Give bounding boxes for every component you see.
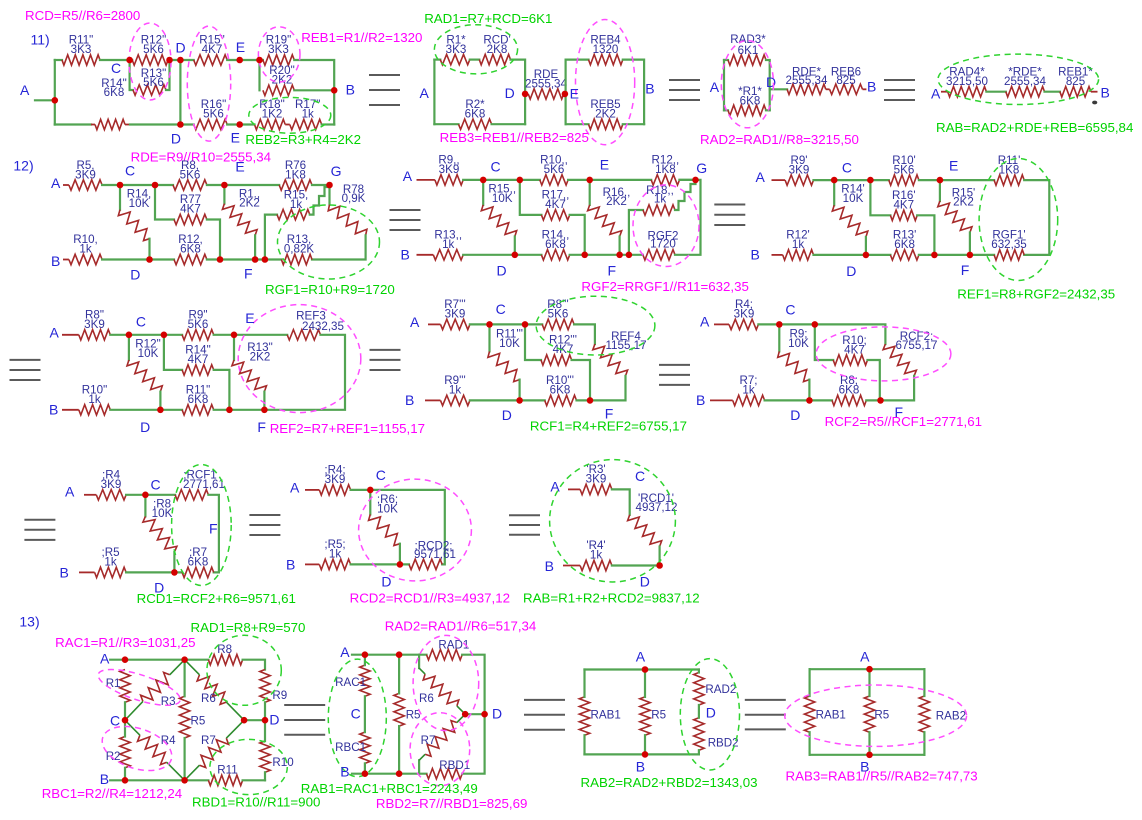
wire B rail to R12 [102, 258, 174, 260]
wire bottom rail 12.3b [919, 254, 994, 256]
wire A lead 4.1 [84, 494, 96, 496]
wire R12 to R13 [207, 258, 282, 260]
wire R15 to E [227, 59, 263, 61]
node C 4.2 [367, 487, 374, 494]
wire B lead 12.6 [710, 399, 733, 401]
node D 12.5 [516, 397, 523, 404]
wire R10; down [868, 360, 880, 400]
svg-text:4937,12: 4937,12 [636, 501, 678, 514]
wire E down 12.2 [589, 180, 591, 205]
svg-text:10K: 10K [138, 347, 159, 360]
svg-text:2K2: 2K2 [953, 196, 974, 209]
resistor R8, 5K6 [173, 180, 207, 190]
svg-text:1k: 1k [79, 243, 91, 256]
svg-text:2555,34: 2555,34 [525, 78, 567, 91]
node D 13.1 [262, 717, 269, 724]
wire REB6 to B [863, 88, 867, 90]
wire bottom rail left [55, 123, 91, 125]
svg-text:E: E [949, 158, 958, 174]
resistor 'RCD1' 4937,12 slanted [628, 515, 662, 547]
svg-text:3K9: 3K9 [84, 318, 105, 331]
node E 12.1 [221, 182, 228, 189]
wire R76 to G [312, 184, 330, 186]
svg-text:2432,35: 2432,35 [302, 320, 344, 333]
node A 13.1 [122, 656, 129, 663]
resistor RGF2 1720 [643, 250, 675, 260]
wire R17 to bottom-right corner [322, 123, 335, 125]
svg-text:B: B [860, 758, 869, 774]
wire top rail 12.6 [758, 324, 885, 344]
junction R5 bottom 13.2 [396, 770, 403, 777]
svg-text:R11: R11 [217, 764, 237, 777]
node G 12.1 [326, 182, 333, 189]
resistor R10, 1k [69, 254, 102, 264]
svg-text:A: A [550, 478, 560, 494]
highlight ellipse R2/R4 [97, 718, 178, 778]
stray ink dot [1092, 101, 1097, 105]
highlight ellipse R15/R16 [187, 26, 230, 141]
resistor R18,, 1k [643, 205, 675, 215]
svg-text:5K6: 5K6 [548, 308, 569, 321]
svg-text:5K6: 5K6 [188, 318, 209, 331]
node E bottom [236, 121, 243, 128]
wire D link 13.2 [465, 713, 484, 715]
svg-text:B: B [645, 81, 654, 97]
junction R6/R7 vertex [462, 711, 469, 718]
wire R15 to D 12.2 [514, 237, 516, 255]
junction R17 tap [517, 177, 524, 184]
svg-text:RBD1=R10//R11=900: RBD1=R10//R11=900 [192, 794, 320, 809]
highlight ellipse R1/R3 [94, 662, 184, 713]
svg-text:2555,34: 2555,34 [1004, 75, 1046, 88]
wire R18 branch up [629, 210, 643, 255]
node C 4.1 [142, 492, 149, 499]
node C 12.1 [117, 182, 124, 189]
junction F 12.6 [877, 397, 884, 404]
wire R14 to D [148, 239, 150, 260]
wire R12" to D [159, 392, 161, 410]
resistor RAB2 vertical [919, 696, 929, 732]
equivalence symbol 2 [669, 79, 700, 81]
svg-text:6K8: 6K8 [465, 107, 486, 120]
resistor RBD1 [427, 769, 463, 779]
svg-text:3K3: 3K3 [71, 43, 92, 56]
svg-text:R4: R4 [161, 734, 176, 747]
wire A lead [63, 184, 69, 186]
svg-text:B: B [401, 246, 410, 262]
wire bottom rail 4.1 [126, 571, 182, 573]
wire bottom right corner 13.2 [462, 714, 484, 774]
svg-text:11): 11) [31, 32, 50, 48]
svg-text:A: A [700, 313, 710, 329]
svg-text:2555,34: 2555,34 [786, 74, 828, 87]
svg-text:RAB=R1+R2+RCD2=9837,12: RAB=R1+R2+RCD2=9837,12 [523, 590, 700, 605]
svg-text:D: D [492, 705, 502, 721]
wire C down 4.1 [144, 495, 146, 517]
resistor R17" 1k [290, 119, 322, 129]
resistor R11" 6K8 [182, 405, 214, 415]
resistor RAD2 vertical [694, 673, 704, 706]
resistor ;RCD2; 9571,61 [409, 559, 442, 569]
svg-text:10K: 10K [129, 197, 150, 210]
svg-text:E: E [600, 157, 609, 173]
resistor R76 1K8 [279, 180, 312, 190]
svg-text:6755,17: 6755,17 [896, 339, 938, 352]
svg-text:D: D [497, 263, 507, 279]
junction bridge right vertex [241, 717, 248, 724]
svg-text:D: D [846, 263, 856, 279]
resistor R9" 5K6 [182, 330, 214, 340]
svg-text:R5: R5 [191, 714, 206, 727]
wire ;R8 to D [173, 552, 175, 572]
wire RAD4*-*RDE* link [986, 91, 1005, 93]
wire bottom rail 12.6b [866, 399, 880, 401]
wire RCF2 to bottom [881, 376, 915, 401]
svg-text:6K8: 6K8 [740, 95, 761, 108]
svg-text:4K7: 4K7 [893, 199, 914, 212]
wire right loop 12.4 [264, 335, 345, 410]
wire bottom rail 12.3a [814, 254, 891, 256]
junction R17 bottom 12.2 [581, 252, 588, 259]
svg-text:1720: 1720 [650, 238, 676, 251]
svg-text:6K8: 6K8 [188, 393, 209, 406]
wire top right corner 13.1 [243, 660, 265, 670]
svg-text:C: C [491, 159, 501, 175]
wire C down 12.3 [833, 180, 835, 205]
svg-text:5K6: 5K6 [143, 43, 164, 56]
wire loop2 top-left [566, 58, 589, 60]
svg-text:RAD1=R7+RCD=6K1: RAD1=R7+RCD=6K1 [424, 11, 552, 26]
wire bottom rail 12.6a [765, 399, 832, 401]
svg-text:RAB1: RAB1 [591, 708, 621, 721]
resistor ;R6; 10K slanted [369, 514, 400, 545]
wire R20 branch vertical [258, 60, 260, 90]
resistor R10" 1k [79, 405, 111, 415]
wire D to RDE* [770, 88, 787, 90]
wire REF4 to bottom [590, 376, 626, 401]
resistor RDE* 2555,34 [787, 84, 826, 94]
junction R77 tap [152, 182, 159, 189]
svg-text:F: F [961, 262, 970, 278]
wire A lead 12.2 [417, 179, 435, 181]
svg-text:3K9: 3K9 [789, 163, 810, 176]
svg-text:C: C [842, 160, 852, 176]
highlight ellipse R19/R20 [258, 27, 300, 82]
svg-text:RAD2=RAD1//R8=3215,50: RAD2=RAD1//R8=3215,50 [700, 132, 859, 147]
equivalence symbol row5-2 [524, 699, 565, 701]
wire *RDE*-REB1* link [1045, 91, 1060, 93]
svg-text:1k: 1k [290, 198, 302, 211]
wire A lead 12.3 [772, 179, 786, 181]
svg-text:5K6: 5K6 [894, 163, 915, 176]
wire B lead 4.3 [563, 565, 580, 567]
svg-text:C: C [351, 705, 361, 721]
wire loop1 bottom-right [492, 123, 525, 125]
wire B lead 12.3 [772, 254, 783, 256]
wire R15' to rail [969, 233, 971, 255]
resistor RAB1 vertical 13.4 [804, 696, 814, 732]
svg-text:D: D [171, 130, 181, 146]
svg-text:RAB1=RAC1+RBC1=2243,49: RAB1=RAC1+RBC1=2243,49 [301, 781, 478, 796]
svg-text:REB2=R3+R4=2K2: REB2=R3+R4=2K2 [245, 132, 361, 147]
wire right loop 4.1 [208, 495, 219, 573]
equivalence symbol 3 [884, 79, 915, 81]
svg-text:6K8: 6K8 [550, 384, 571, 397]
node D bottom [177, 121, 184, 128]
svg-text:1k: 1k [88, 393, 100, 406]
node E 12.2 [586, 177, 593, 184]
junction R5 top 13.2 [396, 651, 403, 658]
equivalence symbol 7 [370, 349, 401, 351]
resistor R9,, 3K9 [435, 175, 463, 185]
wire R13" to rail [263, 392, 265, 410]
equivalence symbol row5-1 [284, 704, 325, 706]
wire R1*-RCD link [470, 58, 480, 60]
wire R11''' to D [518, 380, 520, 401]
junction R16' bottom [931, 252, 938, 259]
resistor R16' 4K7 [890, 210, 917, 220]
resistor RCF2; 6755,17 slanted [883, 344, 916, 376]
svg-text:RAC1: RAC1 [335, 676, 366, 689]
wire A lead 4.2 [305, 489, 319, 491]
wire R17 branch 12.2 [520, 180, 542, 215]
resistor R10''' 6K8 [545, 395, 577, 405]
svg-text:B: B [51, 253, 60, 269]
node C 12.6 [776, 321, 783, 328]
equivalence symbol 4 [390, 209, 421, 211]
resistor R13" 5K6 [133, 85, 166, 95]
wire top right corner 13.2 [462, 655, 484, 715]
junction R77 bottom [217, 256, 224, 263]
svg-text:10K: 10K [843, 192, 864, 205]
svg-text:RBD1: RBD1 [439, 759, 470, 772]
resistor *RDE* 2555,34 [1006, 87, 1045, 97]
node A 13.4 [866, 666, 873, 673]
wire R9 to D right [264, 702, 266, 720]
equivalence symbol row5-3 [745, 699, 786, 701]
svg-text:RDE=R9//R10=2555,34: RDE=R9//R10=2555,34 [131, 150, 271, 165]
resistor R14,, 6K8 [541, 250, 569, 260]
svg-text:6K8: 6K8 [104, 86, 125, 99]
junction R1 bottom [252, 256, 259, 263]
wire staircase R15 to G [310, 185, 330, 215]
svg-text:B: B [49, 402, 58, 418]
highlight ellipse R8/R9 [207, 635, 281, 705]
wire bottom rail 12.4b [214, 409, 265, 411]
svg-text:RBD2=R7//RBD1=825,69: RBD2=R7//RBD1=825,69 [376, 796, 528, 811]
node D 4.2 [397, 561, 404, 568]
junction after R12 [166, 57, 173, 64]
highlight ellipse R11'/RGF1' [979, 159, 1058, 281]
resistor RAB1 vertical 13.3 [579, 697, 589, 735]
highlight ellipse loop3 [721, 41, 773, 128]
equivalence symbol 6 [10, 359, 41, 361]
resistor RBD2 vertical [694, 718, 704, 751]
node B [331, 87, 338, 94]
svg-text:1k: 1k [590, 549, 602, 562]
node D 12.2 [512, 252, 519, 259]
wire right vertical 12.3 [1024, 180, 1049, 255]
resistor R11 [208, 775, 242, 785]
svg-text:C: C [785, 302, 795, 318]
svg-text:B: B [286, 557, 295, 573]
svg-text:D: D [766, 74, 776, 90]
resistor R10' 5K6 [889, 175, 919, 185]
resistor RCD' 2K8 [479, 54, 510, 64]
wire R10; branch [815, 324, 833, 360]
node G 12.2 [692, 177, 699, 184]
node D 12.3 [863, 252, 870, 259]
wire R13 branch left [130, 60, 133, 90]
svg-text:1K8: 1K8 [999, 163, 1020, 176]
svg-text:RAD2: RAD2 [705, 683, 736, 696]
resistor R12" 10K slanted [127, 360, 162, 392]
svg-text:A: A [860, 649, 870, 665]
svg-text:B: B [340, 763, 349, 779]
svg-text:G: G [696, 160, 707, 176]
resistor R11' 1K8 [994, 175, 1024, 185]
resistor R15, 1k [277, 209, 310, 219]
wire top rail 12.5a [470, 323, 542, 325]
wire R77 branch [155, 185, 174, 220]
wire R8''' corner down [574, 324, 595, 344]
svg-text:4K7: 4K7 [844, 344, 865, 357]
svg-text:B: B [60, 564, 69, 580]
node B 13.3 [642, 751, 649, 758]
wire R14" down [214, 370, 230, 410]
svg-text:REB3=REB1//REB2=825: REB3=REB1//REB2=825 [440, 130, 589, 145]
wire R1 to rail [254, 235, 256, 259]
highlight ellipse REF3 [238, 305, 361, 413]
svg-text:R6: R6 [419, 692, 434, 705]
resistor R10; 4K7 [833, 355, 867, 365]
wire top rail 12.2b [568, 179, 651, 181]
wire bottom rail 13.1 [110, 779, 208, 781]
wire top rail 12.3b [919, 179, 994, 181]
resistor R8" 3K9 [79, 330, 111, 340]
wire top rail 12.3a [814, 179, 889, 181]
svg-text:R6: R6 [201, 692, 216, 705]
wire A lead 12.6 [714, 323, 729, 325]
wire RGF2 to G right vertical [675, 180, 701, 255]
svg-text:D: D [381, 573, 391, 589]
svg-text:A: A [403, 168, 413, 184]
svg-text:D: D [502, 407, 512, 423]
wire loop 13.3 [585, 668, 699, 670]
equivalence symbol 9 [249, 514, 280, 516]
svg-text:3215,50: 3215,50 [946, 75, 988, 88]
svg-text:A: A [756, 169, 766, 185]
node E 12.3 [937, 177, 944, 184]
svg-text:1320: 1320 [593, 43, 619, 56]
highlight ellipse R18/R17 [249, 97, 331, 133]
resistor R15' 2K2 slanted [938, 201, 972, 233]
wire bottom rail 13.2 [352, 773, 427, 775]
svg-text:B: B [405, 392, 414, 408]
wire A to RAD4* [941, 91, 948, 93]
svg-text:RCD=R5//R6=2800: RCD=R5//R6=2800 [25, 8, 140, 23]
wire R19 to top-right corner [294, 60, 334, 125]
svg-text:6K8: 6K8 [188, 556, 209, 569]
wire loop3 top-right [766, 60, 770, 110]
svg-text:D: D [154, 579, 164, 595]
svg-text:D: D [505, 85, 515, 101]
svg-text:A: A [410, 314, 420, 330]
svg-text:10K: 10K [788, 337, 809, 350]
svg-text:3K9: 3K9 [101, 478, 122, 491]
wire bottom rail 12.5a [470, 399, 545, 401]
resistor R6 diagonal 13.2 [423, 674, 459, 706]
resistor R7 diagonal 13.2 [425, 721, 457, 757]
svg-text:1k: 1k [792, 238, 804, 251]
svg-text:G: G [331, 163, 342, 179]
resistor R4 diagonal [138, 735, 167, 764]
svg-text:2K2: 2K2 [606, 195, 627, 208]
resistor R15" 4K7 [194, 55, 228, 65]
junction R19/R20 branch [256, 57, 263, 64]
svg-text:F: F [608, 262, 617, 278]
resistor REB4 1320 [589, 54, 623, 64]
junction bottom vertex [181, 777, 188, 784]
svg-text:3K9: 3K9 [445, 308, 466, 321]
svg-text:4K7: 4K7 [202, 43, 223, 56]
svg-text:R5: R5 [874, 709, 889, 722]
wire bottom rail 12.2b [570, 254, 643, 256]
highlight ellipse RAD2/RBD2 [680, 659, 739, 770]
wire R12 to G 12.2 [680, 179, 696, 181]
svg-text:B: B [696, 392, 705, 408]
wire C down 12.2 [482, 180, 484, 205]
svg-text:R7: R7 [201, 734, 216, 747]
resistor R15,, 10K slanted [481, 205, 516, 237]
wire R16 to E bottom [227, 123, 254, 125]
highlight ellipse RAC1/RBC1 [328, 659, 386, 777]
resistor R11''' 10K slanted [488, 351, 520, 381]
svg-text:D: D [706, 704, 716, 720]
wire loop3 left vertical [723, 60, 725, 110]
svg-text:3K3: 3K3 [446, 43, 467, 56]
wire junction to D top [168, 59, 194, 61]
wire bottom rail 4.2 [351, 563, 409, 565]
resistor R8''' 5K6 [542, 319, 574, 329]
wire C down 12.4 [128, 335, 130, 360]
resistor R16,, 2K2 slanted [588, 205, 622, 237]
resistor R12' 1k [783, 250, 814, 260]
resistor R13, 0,82K [281, 254, 312, 264]
svg-text:3K3: 3K3 [268, 43, 289, 56]
svg-text:1k: 1k [442, 238, 454, 251]
node D top [177, 57, 184, 64]
resistor R8 [208, 655, 242, 665]
svg-text:D: D [140, 419, 150, 435]
svg-text:2K8: 2K8 [487, 43, 508, 56]
wire R13 branch right [166, 60, 170, 90]
node C 12.3 [831, 177, 838, 184]
node D 12.1 [146, 256, 153, 263]
wire B lead [63, 259, 69, 261]
resistor R7''' 3K9 [441, 319, 470, 329]
resistor R12,, 1K8 [651, 175, 679, 185]
wire loop2 bottom-right [623, 123, 644, 125]
svg-text:RAB3=RAB1//R5//RAB2=747,73: RAB3=RAB1//R5//RAB2=747,73 [786, 768, 978, 783]
equivalence symbol 5 [714, 204, 745, 206]
wire ;R6; to D [399, 544, 401, 565]
svg-text:RAD1=R8+R9=570: RAD1=R8+R9=570 [191, 620, 306, 635]
wire C down 12.6 [778, 324, 780, 351]
node B 13.1 [122, 777, 129, 784]
svg-text:10K: 10K [377, 502, 398, 515]
resistor ;R4 3K9 [96, 490, 126, 500]
